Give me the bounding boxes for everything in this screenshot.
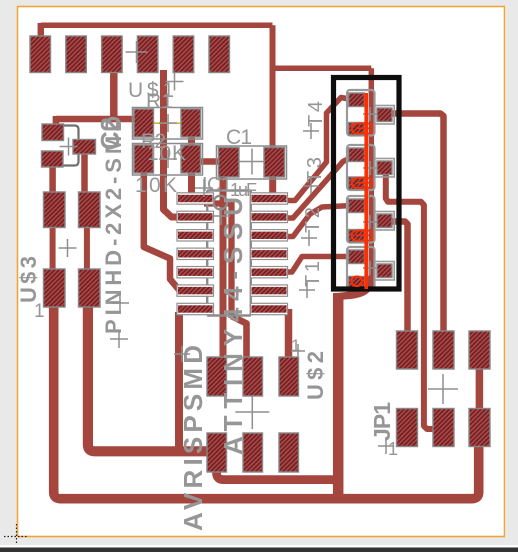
transistor Q4 pad C outline bbox=[375, 106, 394, 125]
origin cross Q4 bbox=[363, 107, 377, 121]
IC1 pin5 pad bbox=[177, 267, 214, 278]
wire vertical inside black frame bbox=[369, 68, 375, 287]
black selection rectangle bbox=[334, 78, 400, 290]
transistor Q3 pad B bbox=[349, 148, 365, 162]
pad C2.2 bbox=[42, 151, 64, 167]
pad U$1 pin6 bbox=[209, 36, 230, 73]
pad U$1 pin4 bbox=[137, 36, 158, 73]
origin cross R1 bbox=[159, 114, 177, 132]
origin cross C2 bbox=[60, 138, 78, 156]
svg-text:C1: C1 bbox=[226, 126, 252, 149]
transistor Q2 outline bbox=[347, 196, 375, 243]
wire JP1 pad3 column link bbox=[476, 366, 484, 412]
pad R1.2 bbox=[181, 109, 201, 137]
wire SOIC pin13 to T3 bbox=[284, 157, 352, 218]
IC1 pin12 pad bbox=[251, 230, 288, 241]
pad U$2 bottom3 bbox=[279, 433, 299, 472]
svg-text:R1: R1 bbox=[146, 90, 173, 113]
pad U$1 pin5 bbox=[173, 36, 194, 73]
wire U$2 bottom pad to thick bus bbox=[217, 466, 339, 492]
wire R2 right to SOIC pin1 bbox=[188, 170, 195, 198]
wire branch to transistor column bbox=[273, 65, 372, 71]
pad U$2 bottom1 bbox=[207, 433, 227, 472]
origin cross R2 bbox=[159, 150, 177, 168]
wire header row link left bbox=[50, 225, 56, 271]
IC1 pin-1 circle marker bbox=[214, 196, 228, 210]
transistor Q1 pad E bbox=[349, 277, 365, 290]
origin cross Q2 bbox=[363, 215, 377, 229]
wire thick vertical bus bbox=[333, 294, 344, 499]
svg-text:PINHD-2X2-SMD: PINHD-2X2-SMD bbox=[101, 116, 126, 334]
transistor Q4 pad C bbox=[377, 108, 392, 122]
origin cross T2 label bbox=[301, 230, 317, 246]
origin cross T4 label bbox=[303, 123, 319, 139]
transistor Q2 pad B bbox=[349, 199, 365, 213]
transistor Q3 outline bbox=[347, 145, 375, 190]
IC1 pin4 pad bbox=[177, 248, 214, 259]
pad U$3 pin3 bbox=[44, 269, 66, 307]
wire curve from frame bottom to thick bus bbox=[333, 276, 375, 300]
capacitor C1 outline bbox=[217, 146, 287, 179]
origin marker dotted cross bbox=[4, 524, 28, 548]
origin cross U$2 bbox=[235, 395, 269, 429]
IC1 pin3 pad bbox=[177, 230, 214, 241]
pad U$2 top1 bbox=[207, 357, 227, 396]
pad U$2 top2 bbox=[243, 357, 263, 396]
op-amp IC1 body outline bbox=[207, 191, 251, 316]
pad C2.3 bbox=[73, 140, 96, 155]
pad U$2 top3 bbox=[279, 357, 299, 396]
highlighted net vertical wire bbox=[364, 93, 368, 289]
wire C2 pad C to header pad2 bbox=[81, 151, 88, 194]
transistor Q3 pad C bbox=[377, 161, 392, 175]
highlighted wire stub at Q2 bbox=[352, 231, 373, 241]
wire header row link right bbox=[84, 225, 90, 271]
transistor Q3 pad C outline bbox=[375, 159, 394, 178]
pad U$2 bottom2 bbox=[243, 433, 263, 472]
highlighted wire stub at Q4 bbox=[352, 124, 373, 134]
wire stub into C2 pad A bbox=[53, 116, 60, 125]
pad U$3 pin2 bbox=[79, 192, 101, 228]
bottom separator bbox=[0, 545, 518, 548]
transistor Q2 pad E bbox=[349, 230, 365, 243]
pad JP1 pin4 bbox=[433, 409, 454, 447]
pad C1.1 bbox=[219, 148, 240, 178]
svg-text:1: 1 bbox=[291, 336, 300, 355]
wire SOIC pin8 to U$2 pad3 bbox=[285, 309, 293, 357]
wire SOIC pin1 into body down bbox=[204, 204, 232, 319]
wire R2 right pad to C1 left pad bbox=[198, 158, 221, 165]
capacitor C2 outline bracket bbox=[63, 126, 79, 166]
origin cross T3 label bbox=[303, 178, 319, 194]
wire T3 collector to JP1 bottom pad2 bbox=[386, 172, 435, 429]
IC1 pin6 pad bbox=[177, 285, 214, 296]
wire vertical right bus to C1 bbox=[270, 25, 276, 148]
pad U$1 pin1 bbox=[30, 36, 51, 73]
pad U$1 pin2 bbox=[66, 36, 87, 73]
pad R2.2 bbox=[181, 145, 201, 173]
wire SOIC pin12 to T2 bbox=[284, 206, 352, 237]
origin cross C1 bbox=[239, 149, 265, 175]
resistor R2 outline bbox=[133, 144, 203, 176]
pad JP1 pin2 bbox=[397, 409, 418, 447]
IC1 pin14 pad bbox=[251, 193, 288, 204]
IC1 pin13 pad bbox=[251, 211, 288, 222]
highlighted pad marker Q1 bbox=[352, 277, 363, 287]
wire T4 collector to JP1 top pad2 bbox=[390, 114, 444, 334]
wire thick U$3 pin2 to AVRISP pad bbox=[88, 303, 208, 451]
transistor Q1 pad C outline bbox=[375, 262, 394, 281]
highlighted wire stub at Q3 bbox=[352, 178, 373, 188]
origin cross U$3 bbox=[59, 239, 77, 257]
wire U$1 pad1 stub up bbox=[38, 23, 45, 36]
bottom window bar bbox=[0, 548, 518, 552]
pad JP1 pin5 bbox=[469, 331, 490, 369]
origin cross JP1 bbox=[428, 374, 458, 404]
airwire (yellow) across R1 bbox=[143, 122, 196, 124]
origin cross IC1 body bbox=[212, 207, 230, 225]
wire U$1 pad3 stub down bbox=[110, 70, 118, 117]
transistor Q3 pad E bbox=[349, 177, 365, 190]
transistor Q4 outline bbox=[347, 90, 375, 136]
IC1 pin1 pad bbox=[177, 193, 214, 204]
transistor Q1 pad C bbox=[377, 264, 392, 278]
wire C1 right to SOIC pin14 bbox=[269, 175, 276, 195]
wire R1 right to R2 right bbox=[188, 135, 195, 147]
wire C2 pad B to header pad1 bbox=[49, 165, 56, 194]
svg-text:10K: 10K bbox=[147, 142, 186, 165]
origin cross JP1 pin1 bbox=[378, 438, 394, 454]
origin cross header pad bbox=[111, 294, 129, 312]
pad C1.2 bbox=[264, 148, 285, 178]
transistor Q1 outline bbox=[347, 247, 375, 290]
wire C1 left pad through IC body to U$2 pad1 bbox=[220, 177, 227, 357]
pad R2.1 bbox=[134, 145, 154, 173]
svg-text:U$2: U$2 bbox=[303, 351, 328, 400]
pad JP1 pin1 bbox=[397, 331, 418, 369]
transistor Q2 pad C bbox=[377, 214, 392, 228]
wire SOIC pin14 to T4 bbox=[284, 98, 352, 201]
origin cross Q1 bbox=[363, 261, 377, 275]
pad C2.1 bbox=[42, 124, 64, 141]
svg-text:1: 1 bbox=[388, 439, 398, 459]
IC1 pin8 pad bbox=[251, 303, 288, 314]
origin cross T1 label bbox=[299, 282, 315, 298]
wire SOIC pin7 down to bus bbox=[175, 312, 183, 451]
transistor Q4 pad B bbox=[349, 93, 365, 107]
svg-text:AVRISPSMD: AVRISPSMD bbox=[178, 345, 208, 531]
pad R1.1 bbox=[134, 109, 154, 137]
wire U$1 pad4 down to SOIC pin2 bbox=[164, 70, 181, 217]
transistor Q4 pad E bbox=[349, 123, 365, 136]
wire jog into U$2 pad2 bbox=[232, 316, 247, 357]
wire SOIC pin10 to T1 bbox=[284, 257, 352, 273]
IC1 pin2 pad bbox=[177, 211, 214, 222]
IC1 pin11 pad bbox=[251, 248, 288, 259]
IC1 pin9 pad bbox=[251, 285, 288, 296]
wire horizontal C2 to R1 bbox=[56, 116, 135, 123]
origin cross R1 text bbox=[166, 73, 184, 91]
svg-text:1: 1 bbox=[34, 301, 45, 322]
origin cross IC1 bbox=[195, 179, 213, 197]
wire T2 collector to JP1 top pad1 bbox=[389, 222, 408, 334]
resistor R1 outline bbox=[133, 108, 203, 140]
svg-text:JP1: JP1 bbox=[369, 402, 395, 441]
transistor Q1 pad B bbox=[349, 250, 365, 264]
origin cross AVRISPSMD text bbox=[174, 346, 190, 362]
origin cross PINHD text bbox=[110, 330, 128, 348]
wire thick bottom loop U$3 pin1 to JP1 bbox=[54, 305, 479, 499]
pad U$3 pin4 bbox=[79, 269, 101, 307]
transistor Q2 pad C outline bbox=[375, 212, 394, 231]
IC1 pin10 pad bbox=[251, 267, 288, 278]
wire R2 left to SOIC pin6 bbox=[144, 171, 183, 291]
pad U$1 pin3 bbox=[102, 36, 123, 73]
pad U$3 pin1 bbox=[44, 192, 66, 228]
svg-text:U$3: U$3 bbox=[16, 256, 41, 303]
wire top horizontal bus bbox=[41, 22, 273, 28]
IC1 pin7 pad bbox=[177, 303, 214, 314]
pad JP1 pin3 bbox=[433, 331, 454, 369]
origin cross U$1 bbox=[126, 41, 148, 63]
svg-text:10K: 10K bbox=[135, 174, 177, 197]
svg-text:1uF: 1uF bbox=[230, 180, 257, 200]
origin cross U$2 pin1 bbox=[291, 344, 305, 358]
origin cross Q3 bbox=[363, 161, 377, 175]
svg-text:IC1: IC1 bbox=[202, 174, 232, 196]
pad JP1 pin6 bbox=[469, 409, 490, 447]
